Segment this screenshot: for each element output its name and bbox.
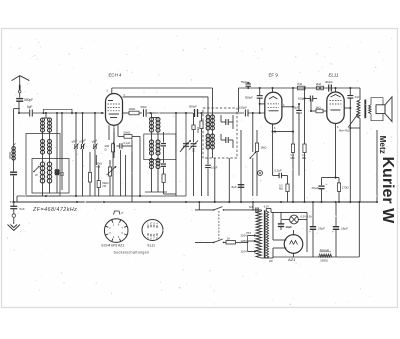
- tube EL11 top tick: [334, 87, 336, 92]
- wire gang link: [185, 113, 187, 196]
- coil L4b: [156, 118, 160, 133]
- tube EF9 cathode: [273, 124, 277, 132]
- coil IF2a: [206, 134, 210, 158]
- svg-text:6,3V: 6,3V: [264, 205, 269, 208]
- capacitor osc pad: [161, 132, 176, 194]
- svg-text:5nF: 5nF: [249, 205, 254, 209]
- wire screen rail: [239, 87, 351, 112]
- wire ECH4 anode line: [123, 97, 209, 115]
- resistor pot track: [108, 160, 111, 196]
- coil box inner shield: [32, 159, 69, 194]
- svg-text:20µF: 20µF: [311, 186, 319, 190]
- paper texture: [7, 36, 393, 306]
- wire 600ohm down: [10, 160, 17, 202]
- coil L6b: [156, 159, 160, 169]
- wire heater top: [252, 202, 271, 212]
- svg-text:AZ1: AZ1: [287, 257, 295, 262]
- tube EL11 envelope: [327, 92, 344, 124]
- wire branch to 600ohm: [14, 109, 20, 147]
- svg-text:+: +: [332, 230, 334, 234]
- wire coil bottoms: [43, 183, 50, 196]
- wire osc link2: [152, 155, 159, 159]
- svg-text:3nF: 3nF: [355, 95, 360, 99]
- wire misc vertical x299: [298, 144, 300, 176]
- svg-text:1W: 1W: [102, 184, 106, 188]
- capacitor variable tuning 1: [182, 141, 191, 150]
- coil IF1b: [211, 115, 215, 134]
- resistor 1k&#937; grid stopper: [310, 99, 327, 113]
- wire OT top: [350, 88, 360, 100]
- speaker cone: [385, 97, 392, 122]
- svg-text:Sockelschaltungen: Sockelschaltungen: [114, 250, 150, 254]
- capacitor 20&#181;F: [311, 182, 328, 190]
- tube EL11 anode pin: [344, 107, 351, 109]
- tube EL11 grids: [330, 95, 342, 111]
- label socket names: [102, 243, 125, 247]
- tube AZ1 rectifier: [284, 235, 303, 254]
- resistor 600&#937; wirewound: [8, 144, 15, 161]
- resistor in box right: [88, 152, 91, 196]
- label EL11: [329, 73, 339, 78]
- wire trimmer drops: [76, 113, 95, 196]
- antenna A1: [12, 76, 30, 85]
- tube ECH4 grids: [108, 101, 121, 118]
- svg-text:125V: 125V: [240, 239, 247, 243]
- resistor 1M&#937; det: [255, 130, 266, 196]
- resistor 2k&#937;: [316, 82, 324, 90]
- svg-text:5µF: 5µF: [294, 106, 299, 110]
- socket EL11: [142, 220, 163, 241]
- svg-text:6,3V 0,3A: 6,3V 0,3A: [301, 214, 313, 218]
- coil L3a: [40, 162, 44, 183]
- capacitor 25&#181;F electrolytic: [309, 202, 325, 257]
- resistor 170&#937;: [337, 183, 348, 192]
- label lamp: [301, 214, 313, 218]
- wire bandswitch loop: [42, 109, 73, 114]
- svg-text:30kΩ: 30kΩ: [196, 127, 200, 133]
- label ZF frequency: [32, 207, 77, 213]
- label 6,3V: [264, 205, 269, 208]
- resistor 0,1M&#937; a: [291, 144, 295, 202]
- resistor 7k&#937;: [297, 82, 305, 90]
- node mid drops: [95, 155, 97, 165]
- tube EF9 anode pin: [282, 104, 294, 108]
- transformer secondary: [266, 211, 268, 258]
- wire right verticals: [350, 108, 377, 202]
- feedback arrow: [348, 115, 358, 128]
- label Metz: [378, 136, 387, 154]
- fuse 1A: [224, 237, 248, 245]
- wire EF9 cathode run: [273, 131, 295, 133]
- capacitor trimmer in box: [60, 112, 64, 190]
- switch mains 2: [213, 239, 224, 243]
- svg-text:0,1µF: 0,1µF: [124, 141, 131, 145]
- tube EF9 grids: [268, 97, 280, 111]
- svg-text:170Ω: 170Ω: [342, 185, 349, 189]
- coil OT secondary: [369, 105, 371, 114]
- wire divider left: [272, 131, 274, 176]
- resistor 50k&#937; 1W: [96, 163, 108, 197]
- capacitor padder in box: [55, 112, 60, 193]
- label 500 gang: [192, 147, 196, 152]
- coil L1b: [48, 118, 52, 132]
- resistor 100&#937; rail: [129, 107, 140, 115]
- node bus dots: [13, 201, 378, 203]
- capacitor 0,1&#181;F coupling2: [117, 138, 133, 196]
- capacitor IF trim1: [221, 115, 233, 129]
- coil L5a: [150, 140, 154, 155]
- svg-text:EF 9: EF 9: [269, 73, 279, 78]
- svg-text:600Ω: 600Ω: [8, 151, 12, 159]
- coil L3b: [47, 162, 51, 183]
- svg-text:1kΩ: 1kΩ: [316, 105, 321, 109]
- capacitor 3nF: [347, 87, 359, 108]
- wire antenna to grid rail: [18, 101, 20, 114]
- svg-text:400pF: 400pF: [325, 80, 333, 84]
- tube ECH4 envelope: [106, 94, 123, 126]
- wire AVC vertical: [175, 112, 177, 196]
- svg-text:1A: 1A: [227, 237, 231, 241]
- svg-text:ECH4 EF9 AZ1: ECH4 EF9 AZ1: [102, 243, 125, 247]
- capacitor 50pF series: [141, 105, 148, 117]
- antenna plug connector: [18, 85, 21, 98]
- wire osc bottoms: [145, 169, 167, 193]
- svg-text:25µF: 25µF: [317, 226, 325, 230]
- svg-text:Drossel: Drossel: [320, 248, 330, 252]
- svg-text:150pF: 150pF: [239, 106, 247, 110]
- wire mains line1: [195, 202, 214, 210]
- resistor 30k&#937; osc: [196, 113, 203, 196]
- svg-text:50kΩ: 50kΩ: [124, 131, 131, 135]
- switch contact mid: [250, 113, 257, 196]
- tube AZ1 anode pins: [273, 212, 286, 257]
- svg-text:50pF: 50pF: [141, 105, 148, 109]
- capacitor variable tuning 2: [189, 113, 198, 196]
- label AZ1: [287, 257, 295, 262]
- speaker magnet box: [376, 105, 385, 114]
- capacitor 75pF: [241, 80, 251, 89]
- wire osc link1: [152, 113, 159, 140]
- wire hexode anode rail: [112, 88, 213, 115]
- ground symbol: [8, 225, 21, 231]
- coil L2b: [48, 140, 52, 155]
- svg-text:1MΩ: 1MΩ: [261, 146, 267, 150]
- transformer primary: [256, 210, 262, 258]
- svg-text:500pF: 500pF: [189, 105, 197, 109]
- label socket EL11: [148, 243, 156, 247]
- svg-text:40µF: 40µF: [286, 225, 293, 229]
- label Ra 7k: [339, 129, 351, 133]
- wire main RF rail: [20, 112, 104, 114]
- svg-text:2kΩ: 2kΩ: [316, 82, 321, 86]
- choke field coil: [319, 248, 332, 263]
- svg-text:8µF: 8µF: [232, 185, 237, 189]
- svg-text:HST: HST: [246, 232, 251, 235]
- capacitor IF trim2: [221, 134, 233, 148]
- wire chassis bus: [10, 201, 377, 203]
- potentiometer arrow: [107, 167, 116, 176]
- capacitor 500pF screen: [245, 88, 263, 113]
- svg-text:7kΩ: 7kΩ: [297, 82, 302, 86]
- svg-text:EL11: EL11: [148, 243, 156, 247]
- svg-text:5000Ω: 5000Ω: [321, 260, 329, 263]
- socket key symbol: [114, 211, 124, 215]
- wire coil link2: [43, 154, 50, 162]
- capacitor 5nF mains: [249, 205, 258, 213]
- coil box outer shield: [26, 134, 60, 197]
- tube ECH4 pin stubs: [107, 88, 126, 132]
- wire rail seg4: [185, 112, 244, 114]
- label Kurier W: [379, 157, 396, 225]
- wire IF drops: [205, 158, 229, 202]
- resistor 50k&#937;: [118, 130, 140, 162]
- coil L6a: [150, 159, 154, 169]
- wire rectifier loop top: [271, 212, 307, 252]
- svg-text:100Ω: 100Ω: [129, 107, 136, 111]
- label tap 125V: [240, 239, 247, 243]
- wire rail ECH4 to IF: [123, 112, 130, 114]
- capacitor 8&#181;F: [232, 185, 245, 189]
- wire rail seg3: [147, 112, 193, 114]
- svg-text:500pF: 500pF: [24, 98, 33, 102]
- svg-text:Metz: Metz: [378, 136, 387, 154]
- transformer core bar: [364, 100, 366, 119]
- wire bottom links: [104, 162, 186, 197]
- lamp dial: [281, 212, 307, 224]
- coil OT primary: [357, 100, 360, 118]
- transformer taps: [247, 235, 257, 253]
- resistor 0,1M&#937; b: [302, 144, 306, 202]
- wire coil feed: [45, 113, 47, 118]
- label ECH4: [109, 73, 122, 78]
- wire ECH4 cathode: [109, 130, 114, 158]
- svg-text:ZF=468/472kHz: ZF=468/472kHz: [32, 207, 77, 213]
- label Sockelschaltungen: [114, 250, 150, 254]
- tube EL11 cathode: [336, 124, 340, 178]
- svg-text:ECH 4: ECH 4: [109, 73, 122, 78]
- capacitor 0,1&#181;F divider: [273, 168, 288, 178]
- wire pot verticals: [121, 150, 132, 202]
- tube EF9 grid pin: [259, 103, 265, 105]
- wire coupling verticals: [293, 88, 306, 144]
- svg-text:Ra≈7kΩ: Ra≈7kΩ: [339, 129, 351, 133]
- coil L1a: [41, 118, 45, 132]
- wire speaker loop: [371, 98, 383, 121]
- capacitor 500pF antenna series: [16, 98, 33, 102]
- coil L4a: [150, 118, 154, 133]
- svg-text:Kurier W: Kurier W: [379, 157, 396, 225]
- ground connector circle: [12, 209, 15, 224]
- svg-text:Ω: Ω: [105, 147, 107, 151]
- wire HT right vertical: [358, 202, 360, 257]
- svg-text:110V: 110V: [241, 249, 247, 253]
- wire box bottom: [17, 195, 104, 202]
- wire rail seg5: [248, 112, 265, 114]
- coil osc box: [144, 134, 176, 160]
- coil L5b: [156, 140, 160, 155]
- svg-text:0,1µF: 0,1µF: [211, 166, 218, 169]
- tube EF9 envelope: [265, 92, 282, 124]
- variable resistor arrow: [180, 143, 188, 152]
- svg-text:5nF: 5nF: [20, 207, 25, 211]
- IF transformer shield dashed: [203, 108, 237, 158]
- svg-text:16µF: 16µF: [341, 226, 348, 230]
- capacitor 16&#181;F electrolytic: [332, 202, 348, 257]
- capacitor 5&#181;F cathode EF9: [294, 103, 302, 144]
- resistor 0,3M&#937;: [279, 176, 289, 203]
- wire OT bottom: [349, 118, 360, 129]
- tube EF9 top pin: [272, 88, 274, 92]
- wire det vertical: [240, 130, 242, 202]
- capacitor 400pF: [325, 80, 333, 91]
- label tap 220V: [240, 233, 247, 237]
- tube AZ1 filament: [290, 230, 298, 257]
- wire cathode RC bottoms: [322, 189, 340, 202]
- capacitor 150pF series: [239, 106, 248, 117]
- wire HT bottom: [262, 257, 360, 263]
- svg-text:0,1µF: 0,1µF: [275, 168, 282, 172]
- svg-text:500pF: 500pF: [245, 95, 253, 99]
- wire cathode RC tee: [322, 177, 340, 185]
- svg-text:P: P: [122, 211, 124, 215]
- coil IF2b: [211, 134, 215, 158]
- capacitor trimmer 25pF: [91, 138, 98, 149]
- capacitor trimmer 100pF: [78, 138, 87, 149]
- capacitor 100pF coupling: [298, 96, 317, 102]
- switch contact wave band: [33, 166, 40, 177]
- socket ECH4 EF9 AZ1: [104, 219, 128, 243]
- label HST: [246, 232, 251, 235]
- svg-text:EL11: EL11: [329, 73, 339, 78]
- switch mains 1: [213, 207, 262, 211]
- label EF9: [269, 73, 279, 78]
- svg-text:+: +: [309, 230, 311, 234]
- wire coil link1: [43, 118, 50, 140]
- node rail junctions: [45, 112, 103, 114]
- capacitor 40&#181;F: [278, 220, 292, 230]
- coil L2a: [41, 140, 45, 155]
- wire rail seg2: [139, 112, 142, 114]
- capacitor 5pF series: [27, 105, 33, 117]
- resistor 200&#937;: [105, 132, 115, 196]
- capacitor 5nF ground lead: [10, 202, 25, 211]
- svg-text:W: W: [35, 173, 38, 177]
- svg-text:75pF: 75pF: [241, 80, 248, 84]
- capacitor trimmer 50pF: [71, 138, 79, 149]
- svg-text:500: 500: [192, 147, 196, 152]
- phono jack: [258, 171, 263, 176]
- coil IF1a: [206, 115, 210, 134]
- label tap 110V: [241, 249, 247, 253]
- wire switch gang dashed: [218, 211, 220, 240]
- svg-text:MΩ: MΩ: [279, 187, 283, 191]
- capacitor 500pF series: [189, 105, 198, 118]
- wire mains line2: [195, 241, 214, 243]
- svg-text:+: +: [326, 182, 328, 186]
- svg-text:mgl.: mgl.: [96, 166, 101, 169]
- svg-text:5pF: 5pF: [27, 105, 33, 109]
- transformer core: [264, 210, 266, 258]
